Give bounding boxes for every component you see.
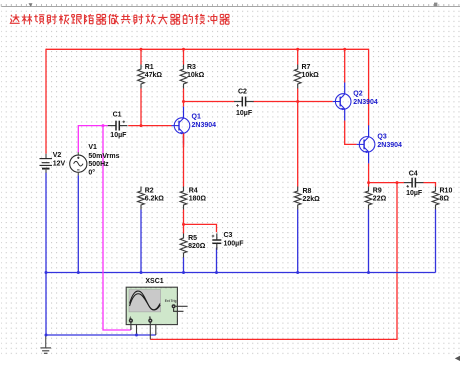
junction: ground node at ground symbol: [45, 334, 48, 337]
wire: C3 bottom to bus: [216, 248, 218, 273]
junction: ground bus / R9: [367, 271, 370, 274]
svg-text:6.2kΩ: 6.2kΩ: [145, 195, 165, 202]
resistor R5 820: [180, 234, 206, 258]
junction: scope A negative lead / ground wire: [135, 334, 138, 337]
wire: Q1 collector node to C2 left: [184, 101, 235, 103]
wire: R1 bottom to base node: [140, 89, 142, 126]
svg-text:10kΩ: 10kΩ: [187, 72, 205, 79]
transistor Q3 2N3904: [357, 125, 402, 163]
junction: R7-R8 / Q2 base node: [296, 100, 299, 103]
svg-text:12V: 12V: [53, 160, 66, 167]
svg-text:R3: R3: [187, 64, 196, 71]
resistor R2 6.2k: [138, 187, 165, 210]
junction: ground bus / V1: [77, 271, 80, 274]
wire: left rail V2 to top rail: [45, 49, 47, 154]
wire: R1 top to rail: [140, 49, 142, 64]
svg-text:C2: C2: [238, 88, 247, 95]
resistor R8 22k: [294, 187, 320, 210]
transistor Q2 2N3904: [333, 83, 378, 121]
wire: C4 right to R10 top: [423, 183, 435, 187]
wire: C1 right to Q1 base: [128, 125, 172, 127]
junction: R4-R5 / C3 node: [182, 223, 185, 226]
wire: R7 bottom to base node: [297, 89, 299, 102]
transistor Q1 2N3904: [172, 107, 217, 145]
svg-text:Q3: Q3: [377, 133, 386, 140]
svg-text:10µF: 10µF: [406, 190, 423, 197]
resistor R4 180: [180, 187, 206, 210]
svg-text:R7: R7: [302, 64, 311, 71]
svg-text:R9: R9: [373, 187, 382, 194]
resistor R1 47k: [138, 64, 163, 89]
junction: C1 input node (magenta): [102, 124, 105, 127]
svg-text:R5: R5: [188, 235, 197, 242]
svg-text:22Ω: 22Ω: [373, 195, 387, 202]
wire: ground bus (blue): [46, 272, 436, 274]
wire: Q3 emitter down to output node: [368, 163, 370, 182]
source V2 12V battery: [40, 152, 66, 173]
svg-text:Q1: Q1: [192, 113, 201, 120]
svg-text:XSC1: XSC1: [145, 278, 163, 285]
wire: ground junction right to scope negatives: [46, 334, 156, 336]
svg-text:R8: R8: [303, 188, 312, 195]
wire: R8 bottom to bus: [297, 210, 299, 273]
wire: R2 bottom to bus: [140, 210, 142, 273]
svg-text:10µF: 10µF: [236, 110, 253, 117]
svg-text:50mVrms: 50mVrms: [88, 153, 119, 160]
svg-text:22kΩ: 22kΩ: [303, 196, 321, 203]
svg-text:2N3904: 2N3904: [353, 99, 378, 106]
svg-text:100µF: 100µF: [224, 240, 245, 247]
wire: Q1 emitter overlay: [183, 133, 185, 147]
junction: ground bus / R8: [296, 271, 299, 274]
wire: R10 bottom to bus: [435, 210, 437, 273]
scope terminal A with leads: [129, 316, 137, 335]
resistor R3 10k: [180, 64, 204, 89]
wire: Q2 emitter to Q3 base: [345, 121, 357, 145]
oscilloscope XSC1: [126, 278, 178, 325]
svg-text:C4: C4: [409, 170, 418, 177]
wire: C2 right to R7 bottom node and Q2 base: [253, 101, 332, 103]
wire: bus to ground junction: [45, 273, 47, 336]
wire: node to C3 top: [184, 224, 217, 232]
svg-text:R1: R1: [145, 64, 154, 71]
scope terminal Ext Trig: [172, 304, 188, 311]
capacitor C2 10uF: [234, 88, 254, 117]
wire: VCC top rail: [46, 48, 369, 50]
wire: C1 node down to scope input A (magenta): [103, 126, 131, 330]
wire: rail right end down to Q3 collector: [368, 49, 370, 126]
junction: rail / R7 top: [296, 48, 299, 51]
resistor R10 8: [432, 187, 452, 210]
wire: Q1 emitter down to R4: [183, 133, 185, 186]
svg-text:180Ω: 180Ω: [189, 195, 207, 202]
svg-text:2N3904: 2N3904: [192, 122, 217, 129]
wire: node to R5 top: [183, 224, 185, 233]
junction: Q1 base node / R1-R2: [140, 124, 143, 127]
svg-text:0°: 0°: [88, 168, 95, 176]
svg-text:Ext Trig: Ext Trig: [165, 299, 177, 303]
junction: ground bus / R5: [182, 271, 185, 274]
scope terminal B with leads: [148, 316, 156, 340]
svg-text:C3: C3: [224, 232, 233, 239]
svg-text:C1: C1: [113, 111, 122, 118]
svg-text:500Hz: 500Hz: [88, 161, 109, 168]
wire: R9 bottom to bus: [368, 210, 370, 273]
wire: R5 bottom to bus: [183, 258, 185, 273]
junction: output node / R9 top: [367, 181, 370, 184]
scrollbar corner mark bottom-right: [455, 356, 460, 361]
wire: R4 bottom to R5/C3 node: [183, 210, 185, 225]
svg-text:V1: V1: [88, 144, 97, 151]
title text (Chinese, drawn as strokes): [10, 14, 229, 25]
svg-text:2N3904: 2N3904: [377, 142, 402, 149]
capacitor C4 10uF: [404, 170, 424, 197]
junction: Q1 collector node / C2: [182, 100, 185, 103]
svg-text:V2: V2: [53, 152, 62, 159]
svg-text:Q2: Q2: [353, 90, 362, 97]
junction: rail / R3 top: [182, 48, 185, 51]
wire: base node down to R8 top: [297, 102, 299, 187]
wire: output node to C4 left: [369, 182, 404, 184]
svg-text:8Ω: 8Ω: [440, 195, 450, 202]
svg-text:10µF: 10µF: [110, 132, 127, 139]
wire: Q2 collector to rail: [344, 49, 346, 82]
svg-text:R10: R10: [440, 187, 453, 194]
junction: output node / scope B tap: [396, 181, 399, 184]
junction: rail / R1 top: [140, 48, 143, 51]
junction: ground bus / R2: [140, 271, 143, 274]
svg-text:R4: R4: [189, 187, 198, 194]
junction: ground bus / V2: [45, 271, 48, 274]
wire: R7 top to rail: [297, 49, 299, 64]
resistor R7 10k: [294, 64, 319, 89]
wire: R3 top to rail: [183, 49, 185, 64]
wire: V1 top to C1 node (magenta): [78, 126, 108, 153]
capacitor C3 100uF: [212, 232, 245, 250]
svg-text:R2: R2: [145, 187, 154, 194]
ruler top: [1, 3, 460, 7]
junction: rail / Q2 collector: [343, 48, 346, 51]
wire: R3 bottom to Q1 collector node: [183, 89, 185, 107]
wire: output node down and left to scope B: [150, 183, 397, 340]
wire: V1 bottom to bus: [77, 175, 79, 272]
junction: ground bus / C3: [215, 271, 218, 274]
wire: output node R9 top: [368, 183, 370, 187]
source V1 AC 50mVrms 500Hz: [70, 144, 120, 177]
wire: V2 minus down to bus: [45, 173, 47, 273]
svg-text:47kΩ: 47kΩ: [145, 72, 163, 79]
ground symbol: [40, 335, 51, 353]
svg-text:820Ω: 820Ω: [188, 243, 206, 250]
capacitor C1 10uF: [108, 111, 128, 138]
svg-text:10kΩ: 10kΩ: [302, 72, 320, 79]
resistor R9 22: [365, 187, 386, 210]
